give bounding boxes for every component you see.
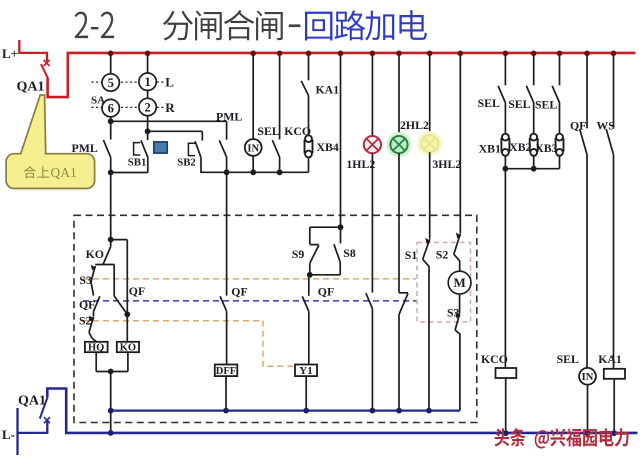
svg-text:KCO: KCO: [481, 352, 508, 366]
svg-text:S1: S1: [405, 248, 418, 262]
svg-text:SEL: SEL: [478, 96, 500, 110]
svg-text:SEL: SEL: [535, 97, 557, 111]
svg-text:IN: IN: [582, 372, 594, 383]
svg-text:QF: QF: [570, 119, 586, 133]
svg-text:S2: S2: [79, 313, 92, 327]
svg-text:XB2: XB2: [509, 140, 531, 154]
svg-text:Y1: Y1: [299, 365, 312, 377]
svg-text:IN: IN: [247, 143, 259, 154]
svg-text:HQ: HQ: [88, 342, 104, 353]
svg-text:QF: QF: [318, 284, 334, 298]
svg-text:QA1: QA1: [17, 80, 45, 95]
svg-text:1: 1: [144, 75, 150, 89]
svg-text:S3: S3: [447, 306, 460, 320]
svg-text:XB1: XB1: [479, 142, 501, 156]
svg-text:L-: L-: [2, 427, 15, 442]
svg-text:QA1: QA1: [51, 165, 77, 180]
svg-text:S9: S9: [292, 247, 305, 261]
svg-text:SB2: SB2: [177, 157, 196, 169]
svg-text:QF: QF: [129, 284, 145, 298]
svg-text:SEL: SEL: [508, 97, 530, 111]
svg-text:KA1: KA1: [598, 352, 622, 366]
svg-text:1HL2: 1HL2: [346, 157, 375, 171]
svg-text:SB1: SB1: [128, 157, 147, 169]
svg-text:KA1: KA1: [316, 83, 340, 97]
svg-text:KO: KO: [86, 247, 104, 261]
svg-text:WS: WS: [596, 119, 615, 133]
svg-text:L: L: [165, 75, 174, 90]
svg-text:5: 5: [108, 76, 114, 90]
svg-text:2HL2: 2HL2: [400, 118, 429, 132]
svg-text:S8: S8: [343, 246, 356, 260]
svg-text:XB3: XB3: [535, 141, 557, 155]
svg-text:QF: QF: [231, 284, 247, 298]
svg-text:SA: SA: [91, 94, 105, 106]
svg-text:3HL2: 3HL2: [432, 157, 461, 171]
svg-text:R: R: [165, 100, 175, 115]
svg-text:S2: S2: [436, 247, 449, 261]
svg-text:6: 6: [108, 102, 114, 116]
svg-text:SEL: SEL: [257, 124, 279, 138]
svg-text:M: M: [453, 275, 465, 290]
svg-text:PML: PML: [72, 141, 98, 155]
svg-text:PML: PML: [216, 110, 242, 124]
svg-text:2: 2: [144, 100, 150, 114]
svg-text:XB4: XB4: [317, 140, 339, 154]
svg-text:QF: QF: [79, 297, 95, 311]
svg-text:DFF: DFF: [216, 366, 236, 377]
svg-text:QA1: QA1: [18, 393, 46, 408]
svg-text:KO: KO: [120, 342, 136, 353]
svg-text:L+: L+: [2, 46, 18, 61]
svg-text:S3: S3: [79, 273, 92, 287]
svg-text:SEL: SEL: [557, 352, 579, 366]
